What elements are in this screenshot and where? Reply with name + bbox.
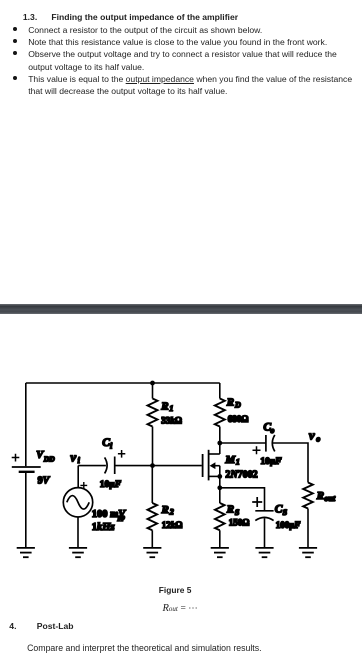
- svg-text:680Ω: 680Ω: [228, 414, 249, 424]
- svg-text:12kΩ: 12kΩ: [162, 520, 183, 530]
- svg-text:i: i: [78, 456, 81, 465]
- svg-text:DD: DD: [43, 455, 55, 464]
- svg-text:1kHz: 1kHz: [92, 522, 116, 533]
- svg-text:9V: 9V: [38, 476, 51, 487]
- svg-text:pp: pp: [117, 514, 126, 522]
- svg-text:R: R: [226, 397, 234, 409]
- svg-text:R: R: [226, 503, 234, 515]
- svg-text:v: v: [70, 449, 76, 464]
- svg-text:C: C: [102, 437, 110, 449]
- svg-text:1: 1: [236, 458, 240, 467]
- svg-text:M: M: [224, 454, 236, 466]
- svg-text:o: o: [316, 434, 320, 443]
- svg-text:150Ω: 150Ω: [229, 518, 250, 528]
- svg-text:S: S: [283, 508, 288, 517]
- svg-text:10μF: 10μF: [260, 457, 282, 467]
- svg-text:R: R: [161, 504, 169, 516]
- svg-text:33kΩ: 33kΩ: [161, 415, 182, 425]
- svg-text:o: o: [270, 426, 274, 435]
- svg-text:R: R: [160, 400, 168, 412]
- svg-text:v: v: [309, 428, 315, 443]
- svg-text:100μF: 100μF: [276, 520, 301, 530]
- svg-text:i: i: [110, 442, 113, 451]
- svg-text:2N7002: 2N7002: [225, 470, 257, 481]
- svg-text:10μF: 10μF: [100, 480, 122, 490]
- svg-text:1: 1: [169, 404, 173, 413]
- svg-text:S: S: [235, 508, 240, 517]
- svg-text:D: D: [234, 400, 241, 409]
- svg-text:R: R: [316, 490, 324, 502]
- svg-text:C: C: [275, 504, 283, 516]
- svg-text:out: out: [324, 494, 335, 503]
- svg-text:2: 2: [169, 508, 174, 517]
